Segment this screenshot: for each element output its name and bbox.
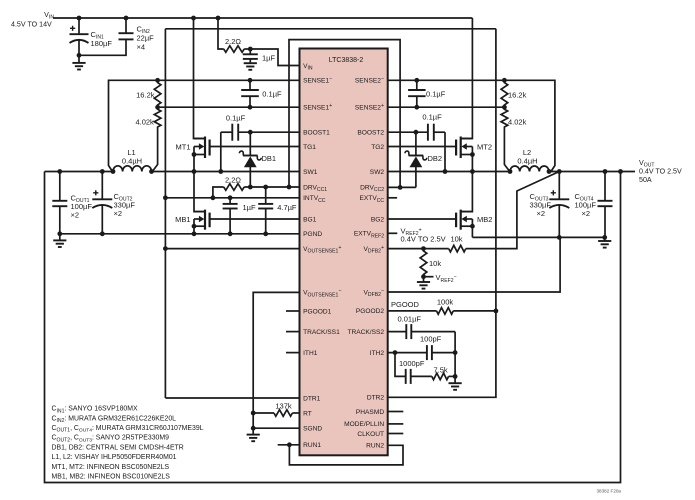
svg-text:ITH1: ITH1 — [303, 350, 318, 357]
capacitor 0.01uF TRACK/SS2 — [388, 315, 455, 340]
wire EXTVCC stub — [388, 197, 397, 199]
svg-text:SENSE1−: SENSE1− — [303, 76, 332, 85]
wire SW1 net — [152, 171, 300, 173]
svg-text:1µF: 1µF — [262, 54, 275, 63]
junction CIN1/CIN2 bottom — [77, 53, 82, 58]
wire VOUT loop around bottom — [45, 172, 621, 483]
svg-text:SENSE1+: SENSE1+ — [303, 103, 332, 112]
svg-text:38382 F20a: 38382 F20a — [596, 488, 621, 493]
ground VREF2 — [417, 277, 430, 289]
svg-text:16.2k: 16.2k — [136, 90, 155, 99]
ground COUT left — [53, 234, 66, 247]
ground CIN — [72, 55, 85, 69]
svg-text:16.2k: 16.2k — [508, 90, 527, 99]
svg-text:LTC3838-2: LTC3838-2 — [329, 57, 364, 64]
ground VIN 1uF — [244, 63, 257, 70]
svg-text:0.4V TO 2.5V: 0.4V TO 2.5V — [401, 234, 446, 243]
svg-text:DTR1: DTR1 — [303, 395, 321, 402]
junction VOUT right dots — [557, 169, 623, 174]
diode DB1 schottky — [239, 132, 276, 187]
capacitor 0.1uF boost1 — [221, 113, 246, 171]
svg-text:×2: ×2 — [71, 211, 80, 220]
resistor 10k VDFB2 top — [388, 172, 560, 252]
svg-text:0.1µF: 0.1µF — [262, 89, 282, 98]
resistor 10k VREF2 bottom — [420, 249, 441, 277]
svg-text:2.2Ω: 2.2Ω — [225, 37, 241, 46]
wire CLKOUT stub — [388, 433, 404, 435]
transistor MB1 — [175, 172, 210, 234]
wire VOUT rail right — [549, 171, 635, 173]
svg-text:×2: ×2 — [114, 209, 123, 218]
svg-text:TG1: TG1 — [303, 144, 316, 151]
capacitor 1uF INTVCC — [223, 198, 256, 234]
svg-text:DB1, DB2: CENTRAL SEMI CMDSH-4: DB1, DB2: CENTRAL SEMI CMDSH-4ETR — [52, 444, 184, 451]
capacitor 0.1uF sense1 — [241, 80, 282, 107]
resistor 2.2R DRVCC1 — [213, 175, 300, 198]
svg-text:×4: ×4 — [137, 43, 146, 52]
svg-text:×2: ×2 — [537, 209, 546, 218]
svg-text:7.5k: 7.5k — [434, 366, 448, 375]
junction PGOOD2 tap — [494, 309, 499, 314]
svg-text:PGOOD2: PGOOD2 — [356, 308, 385, 315]
svg-text:DTR2: DTR2 — [367, 395, 385, 402]
wire TG1 — [210, 146, 300, 148]
svg-text:4.7µF: 4.7µF — [277, 203, 297, 212]
junction BOOST1/DB1 — [248, 130, 253, 135]
wire SS2/ITH2 ground vertical — [449, 332, 462, 390]
svg-text:×2: ×2 — [582, 209, 591, 218]
junction INTVCC tap — [163, 195, 168, 200]
capacitor CIN2 22uF x4 — [79, 18, 154, 55]
svg-text:MB1: MB1 — [175, 215, 190, 224]
svg-text:180µF: 180µF — [91, 39, 113, 48]
svg-text:1µF: 1µF — [243, 203, 256, 212]
wire PGND left — [60, 233, 300, 235]
wire DTR1 — [165, 397, 299, 399]
svg-text:10k: 10k — [450, 234, 462, 243]
svg-text:MB2: MB2 — [477, 215, 492, 224]
capacitor 0.1uF sense2 — [408, 80, 446, 107]
wire EXTVREF2 stub — [388, 226, 446, 243]
inductor L1 0.4uH — [111, 148, 154, 174]
resistor 4.02k ch2 — [501, 107, 526, 171]
ground COUT right — [598, 237, 611, 247]
capacitor 1uF VIN bypass — [243, 49, 276, 63]
svg-text:SENSE2+: SENSE2+ — [355, 103, 384, 112]
node VIN input — [11, 11, 54, 29]
svg-text:0.1µF: 0.1µF — [422, 112, 442, 121]
svg-text:0.1µF: 0.1µF — [226, 113, 246, 122]
junction SW2 dots — [443, 169, 475, 174]
svg-text:100pF: 100pF — [420, 335, 442, 344]
svg-text:MT2: MT2 — [477, 142, 492, 151]
wire PGND right — [472, 236, 604, 238]
capacitor COUT2 330uF x2 — [92, 172, 135, 234]
wire VDFB2- net — [388, 237, 560, 292]
wire ITH1 stub — [286, 352, 300, 354]
svg-text:DB1: DB1 — [262, 154, 277, 163]
wire RUN1-RUN2 loop — [289, 445, 403, 465]
svg-text:22µF: 22µF — [137, 33, 155, 42]
svg-text:RUN2: RUN2 — [366, 443, 384, 450]
junction SENSE2+ dots — [414, 105, 506, 110]
wire SGND — [253, 427, 299, 429]
node BOM notes — [52, 406, 204, 481]
svg-text:0.4V TO 2.5V: 0.4V TO 2.5V — [639, 168, 682, 176]
wire BG1 — [210, 218, 300, 220]
wire BOOST2 — [388, 131, 428, 133]
resistor 16.2k ch2 — [501, 80, 526, 107]
svg-text:PGND: PGND — [303, 231, 322, 238]
svg-text:DB2: DB2 — [428, 154, 443, 163]
junction SENSE2- dots — [414, 78, 506, 83]
transistor MT1 — [176, 18, 210, 172]
wire TG2 — [388, 146, 456, 148]
wire RUN1 — [278, 442, 300, 447]
wire VOUT rail left — [45, 171, 114, 173]
svg-text:0.01µF: 0.01µF — [398, 315, 422, 324]
node VREF2- — [421, 273, 457, 284]
wire DRVCC1-DRVCC2 loop — [289, 40, 400, 188]
capacitor CIN1 180uF — [70, 18, 113, 55]
wire TRACK/SS1 stub — [286, 331, 300, 333]
svg-text:0.4µH: 0.4µH — [517, 157, 537, 166]
junction ITH2 ground dots — [453, 350, 458, 379]
wire VIN rail — [53, 17, 472, 19]
capacitor COUT1 100uF x2 — [52, 172, 92, 234]
ground SGND — [247, 435, 260, 442]
transistor MB2 — [456, 172, 492, 238]
junction PGND left dots — [57, 231, 268, 236]
svg-text:SGND: SGND — [303, 426, 322, 433]
wire INTVCC — [165, 197, 299, 199]
junction INTVCC dots — [211, 195, 233, 200]
junction ITH2 tap — [393, 350, 398, 355]
svg-text:BOOST1: BOOST1 — [303, 130, 330, 137]
capacitor COUT3 330uF x2 — [530, 172, 570, 238]
resistor 16.2k ch1 — [136, 80, 161, 107]
IC U1 LTC3838-2 — [300, 49, 388, 456]
node VOUT output — [639, 159, 682, 184]
wire PHASMD stub — [388, 411, 404, 413]
capacitor COUT4 100uF x2 — [575, 172, 613, 238]
wire MODE/PLLIN stub — [388, 423, 404, 425]
svg-text:TG2: TG2 — [371, 144, 384, 151]
svg-text:SENSE2−: SENSE2− — [355, 76, 384, 85]
wire SENSE2- net — [388, 80, 555, 171]
svg-text:1000pF: 1000pF — [399, 359, 425, 368]
wire SENSE1+ net — [158, 106, 300, 108]
wire SW2 net — [388, 171, 510, 173]
svg-text:BOOST2: BOOST2 — [357, 130, 384, 137]
junction BOOST2/DB2 — [414, 130, 419, 135]
svg-text:PHASMD: PHASMD — [356, 409, 384, 416]
svg-text:RT: RT — [303, 410, 312, 417]
wire BOOST1 — [238, 131, 299, 133]
wire INTVCC-to-PGOOD2 top link — [165, 28, 496, 30]
svg-text:4.02k: 4.02k — [508, 117, 527, 126]
wire DRVCC2 — [388, 185, 416, 190]
resistor 137k RT — [253, 401, 299, 416]
capacitor 4.7uF DRVCC — [258, 187, 297, 234]
wire VOUTSENSE1- to SGND ground — [253, 292, 299, 434]
junction VOUT left dots — [57, 169, 104, 174]
svg-text:PGOOD1: PGOOD1 — [303, 308, 332, 315]
wire SENSE2+ net — [388, 106, 505, 108]
wire PGOOD1 stub — [286, 310, 300, 312]
svg-text:4.02k: 4.02k — [135, 117, 154, 126]
svg-text:SW1: SW1 — [303, 169, 318, 176]
junction VOUTSENSE1+ tap — [163, 246, 168, 251]
svg-text:PGOOD: PGOOD — [391, 300, 420, 309]
svg-text:ITH2: ITH2 — [370, 350, 385, 357]
resistor 2.2R VIN filter — [218, 18, 250, 52]
svg-text:MT1: MT1 — [176, 142, 191, 151]
svg-text:2.2Ω: 2.2Ω — [225, 175, 241, 184]
svg-text:SW2: SW2 — [370, 169, 385, 176]
junction RT/SGND taps — [251, 411, 256, 431]
wire VOUTSENSE1+ — [165, 248, 299, 250]
svg-text:L1, L2: VISHAY IHLP5050FDERR40: L1, L2: VISHAY IHLP5050FDERR40M01 — [52, 454, 177, 461]
svg-text:4.5V TO 14V: 4.5V TO 14V — [11, 21, 52, 29]
junction 2.2R/1uF — [248, 47, 253, 52]
wire to VIN pin — [250, 49, 299, 66]
junction PGND right dots — [557, 235, 607, 240]
junction SW1 dots — [192, 169, 224, 174]
svg-text:0.1µF: 0.1µF — [426, 89, 446, 98]
wire BG2 — [388, 218, 456, 220]
svg-text:BG2: BG2 — [371, 216, 385, 223]
capacitor 1000pF + resistor 7.5k comp — [395, 353, 455, 384]
svg-text:CLKOUT: CLKOUT — [357, 431, 384, 438]
svg-text:0.4µH: 0.4µH — [122, 157, 142, 166]
capacitor 100pF ITH2 — [388, 335, 455, 360]
capacitor 0.1uF boost2 — [422, 112, 445, 171]
resistor 4.02k ch1 — [135, 107, 160, 171]
junction DRVCC1 dots — [248, 185, 291, 190]
svg-text:RUN1: RUN1 — [303, 442, 321, 449]
wire INTVCC/VOUTSENSE1+/DTR1 vertical — [164, 29, 166, 398]
svg-text:MODE/PLLIN: MODE/PLLIN — [344, 421, 384, 428]
wire PGOOD2/DTR2 vertical — [388, 29, 496, 398]
inductor L2 0.4uH — [508, 148, 552, 174]
junction VIN rail dots — [77, 16, 221, 21]
diode DB2 schottky — [405, 132, 442, 187]
svg-text:TRACK/SS1: TRACK/SS1 — [303, 329, 340, 336]
resistor 100k PGOOD pull-up — [388, 297, 496, 314]
svg-text:MT1, MT2: INFINEON BSC050NE2LS: MT1, MT2: INFINEON BSC050NE2LS — [52, 464, 170, 471]
svg-text:10k: 10k — [429, 259, 441, 268]
svg-text:137k: 137k — [275, 401, 292, 410]
svg-text:50A: 50A — [639, 176, 652, 184]
transistor MT2 — [456, 18, 492, 172]
svg-text:100k: 100k — [437, 297, 454, 306]
junction VDFB2+ tap — [421, 246, 426, 251]
junction SENSE1- dots — [155, 78, 252, 83]
node figure number — [596, 488, 621, 493]
junction SENSE1+ dots — [155, 105, 252, 110]
svg-text:BG1: BG1 — [303, 216, 317, 223]
svg-text:MB1, MB2: INFINEON BSC010NE2LS: MB1, MB2: INFINEON BSC010NE2LS — [52, 474, 171, 481]
wire SENSE1- net — [109, 80, 300, 171]
svg-text:TRACK/SS2: TRACK/SS2 — [347, 329, 384, 336]
